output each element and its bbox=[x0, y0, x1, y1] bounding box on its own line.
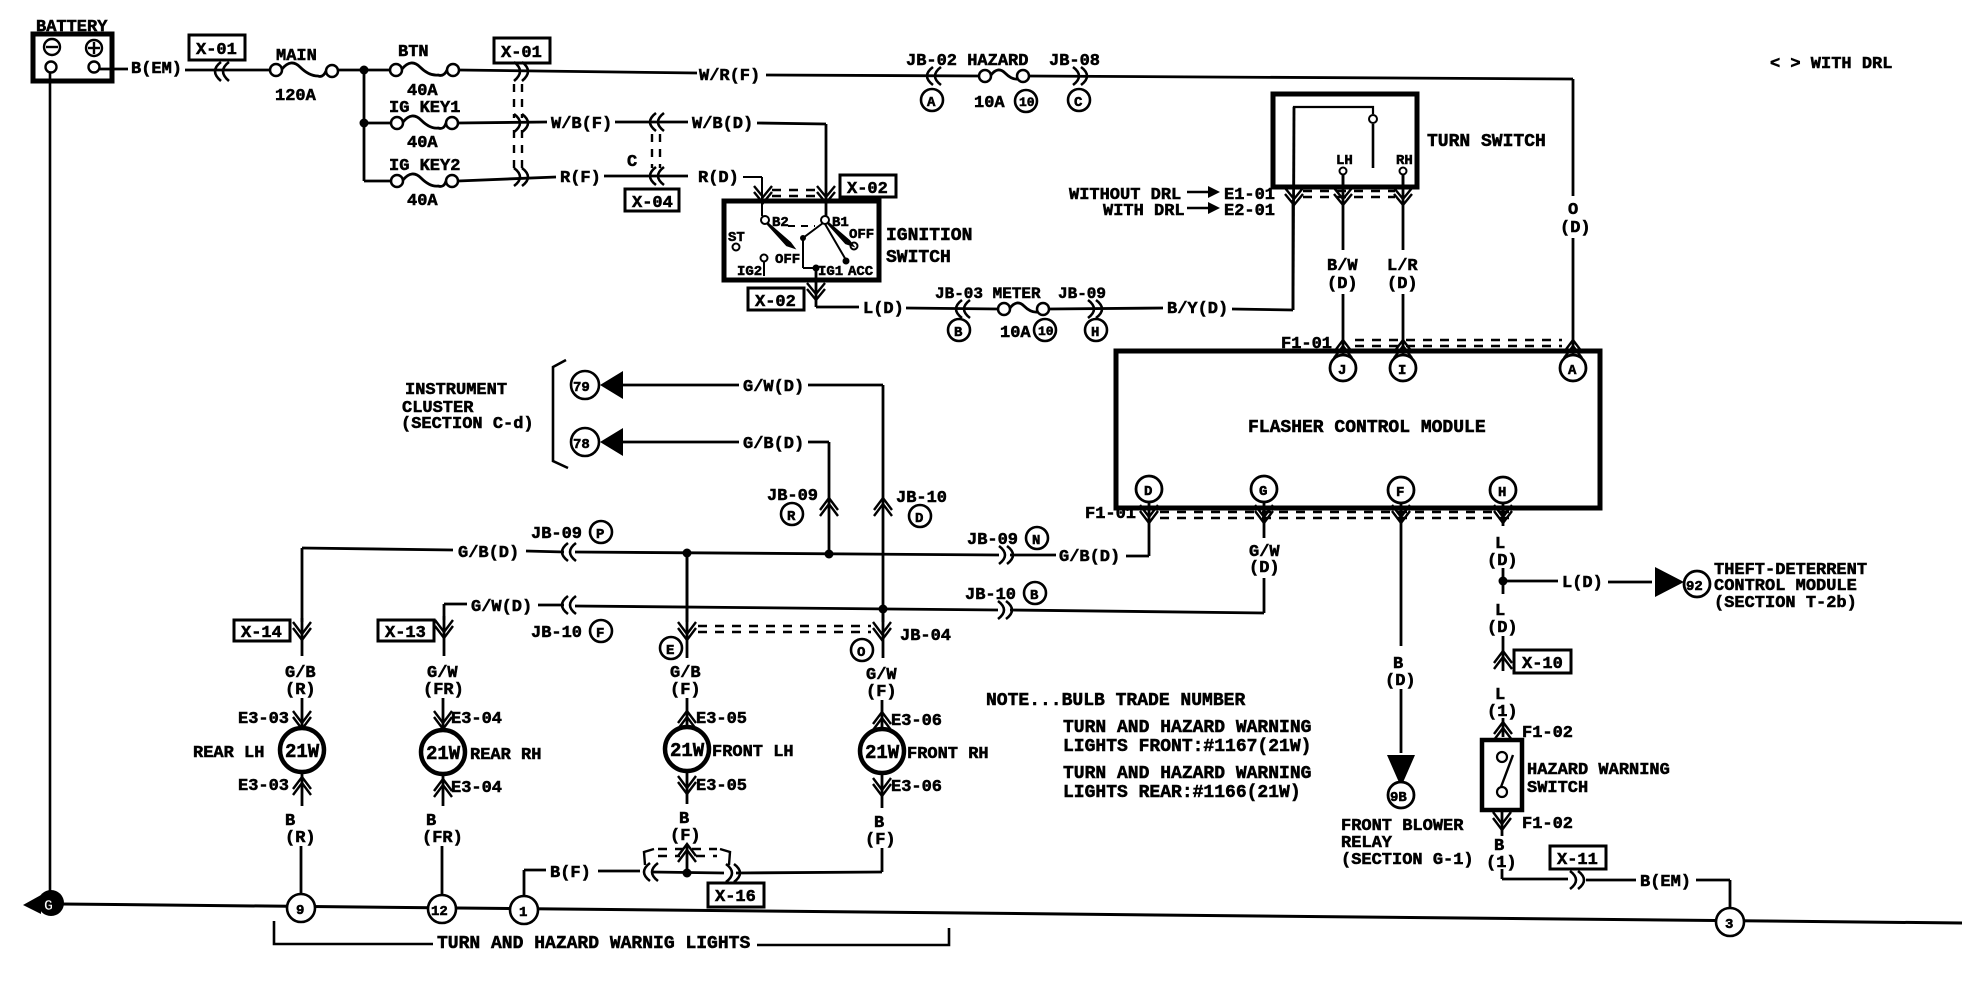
svg-text:W/B(D): W/B(D) bbox=[692, 115, 753, 134]
svg-text:R(D): R(D) bbox=[698, 169, 739, 188]
wire B/W (D) LH pin down bbox=[1327, 175, 1358, 354]
svg-text:D: D bbox=[1144, 484, 1152, 500]
connector X-14 label box bbox=[234, 620, 290, 643]
arrow to theft deterrent bbox=[1655, 567, 1684, 597]
connector E3-03 lower bbox=[238, 777, 311, 796]
connector X-11 chevron bbox=[1570, 871, 1584, 889]
svg-text:E: E bbox=[666, 643, 674, 659]
connector E3-04 upper bbox=[434, 710, 502, 729]
connector X-02 label box bottom bbox=[748, 288, 804, 312]
svg-text:L(D): L(D) bbox=[1562, 574, 1603, 593]
svg-text:IG1: IG1 bbox=[818, 264, 843, 280]
hazard warning switch box bbox=[1482, 740, 1522, 810]
wire B (1) label bbox=[1486, 808, 1517, 879]
wire BTN fuse to X-01 row1 bbox=[459, 70, 697, 73]
fuse MAIN 120A bbox=[270, 47, 338, 106]
node battery feed branch bbox=[360, 66, 369, 75]
svg-text:X-02: X-02 bbox=[847, 180, 888, 199]
connector X-04 label box bbox=[625, 189, 679, 213]
node IG KEY1 branch bbox=[360, 119, 369, 128]
svg-text:G/B(D): G/B(D) bbox=[1059, 548, 1120, 567]
svg-text:SWITCH: SWITCH bbox=[1527, 779, 1588, 798]
svg-text:E3-06: E3-06 bbox=[891, 778, 942, 797]
connector F1-01 dashed line top bbox=[1355, 340, 1562, 346]
wire B (F) front LH bbox=[670, 771, 701, 873]
svg-text:IG2: IG2 bbox=[737, 264, 762, 280]
connector X-02 dashed line bbox=[772, 190, 818, 196]
bulb REAR LH 21W bbox=[193, 728, 324, 772]
connector X-01 chevron bbox=[215, 62, 229, 81]
svg-text:10: 10 bbox=[1038, 324, 1054, 339]
svg-text:I: I bbox=[1398, 363, 1406, 379]
pin A circle flasher bbox=[1560, 355, 1586, 381]
wire B(F) horizontal bbox=[524, 864, 882, 897]
label JB-09 circled N bbox=[967, 527, 1048, 550]
label HAZARD WARNING SWITCH bbox=[1527, 761, 1670, 798]
arrow to front blower relay bbox=[1387, 755, 1415, 787]
wire B (R) to ground 9 bbox=[285, 771, 316, 895]
pin F circle bbox=[1388, 477, 1414, 503]
svg-text:E3-06: E3-06 bbox=[891, 712, 942, 731]
connector JB-09 P chevron bbox=[562, 543, 576, 561]
wire G/W (F) label front RH bbox=[866, 609, 897, 729]
svg-text:RH: RH bbox=[1396, 153, 1413, 169]
svg-text:X-14: X-14 bbox=[241, 624, 282, 643]
wire turn switch B pin down to B/Y(D) bbox=[1293, 107, 1294, 310]
connector X-01 second label box bbox=[494, 38, 550, 63]
wire L(D) from ignition to meter fuse bbox=[816, 300, 999, 319]
connector X-04 chevron row2 bbox=[650, 113, 664, 131]
svg-text:(D): (D) bbox=[1385, 672, 1416, 691]
connector JB-10 D chevron bbox=[874, 498, 892, 516]
svg-text:D: D bbox=[915, 511, 923, 527]
svg-text:E3-03: E3-03 bbox=[238, 710, 289, 729]
ignition switch box bbox=[724, 201, 879, 280]
svg-text:G: G bbox=[1259, 484, 1267, 500]
svg-text:FLASHER CONTROL MODULE: FLASHER CONTROL MODULE bbox=[1248, 418, 1486, 438]
pin 92 circle bbox=[1684, 571, 1710, 597]
svg-text:79: 79 bbox=[573, 380, 590, 396]
svg-text:JB-03 METER: JB-03 METER bbox=[935, 285, 1050, 303]
svg-text:F1-01: F1-01 bbox=[1085, 505, 1136, 524]
wire pin F drop B (D) bbox=[1385, 503, 1416, 753]
wire G/B (F) label front LH bbox=[670, 553, 701, 727]
svg-text:INSTRUMENT: INSTRUMENT bbox=[405, 381, 507, 400]
svg-text:B: B bbox=[954, 325, 963, 341]
connector E3-04 lower bbox=[434, 779, 502, 798]
connector JB-09 R chevron bbox=[820, 498, 838, 516]
svg-text:W/B(F): W/B(F) bbox=[551, 115, 612, 134]
svg-text:B(F): B(F) bbox=[550, 864, 591, 883]
svg-text:(D): (D) bbox=[1249, 559, 1280, 578]
svg-text:B(EM): B(EM) bbox=[1640, 873, 1691, 892]
node cluster G/B tap bbox=[825, 550, 834, 559]
wire rear RH drop from G/W(D) bbox=[443, 604, 446, 620]
svg-text:(D): (D) bbox=[1560, 219, 1591, 238]
svg-text:B: B bbox=[1030, 588, 1039, 604]
svg-text:N: N bbox=[1032, 533, 1040, 549]
bulb FRONT RH 21W bbox=[860, 729, 989, 773]
svg-text:R(F): R(F) bbox=[560, 169, 601, 188]
wire G/W (FR) label bbox=[423, 616, 464, 731]
connector X-13 chevron bbox=[435, 620, 453, 638]
connector X-16 left chevron bbox=[644, 863, 658, 881]
battery bbox=[33, 18, 112, 81]
svg-text:LIGHTS REAR:#1166(21W): LIGHTS REAR:#1166(21W) bbox=[1063, 783, 1301, 803]
svg-text:(D): (D) bbox=[1327, 275, 1358, 294]
svg-text:HAZARD WARNING: HAZARD WARNING bbox=[1527, 761, 1670, 780]
svg-text:L/R: L/R bbox=[1387, 257, 1418, 276]
label JB-09 circled R bbox=[767, 487, 818, 525]
connector JB-04 dashed line bbox=[698, 626, 871, 632]
label JB-10 circled B bbox=[965, 582, 1046, 605]
wire pin G to G/W(D) with label bbox=[1010, 502, 1280, 613]
connector X-01 label box bbox=[189, 35, 245, 60]
label FRONT BLOWER RELAY bbox=[1341, 817, 1474, 870]
connector X-16 chevron bbox=[678, 844, 696, 862]
svg-text:TURN AND HAZARD WARNING: TURN AND HAZARD WARNING bbox=[1063, 764, 1311, 784]
wire pin H drop with L(D) labels bbox=[1487, 503, 1518, 594]
turn switch internal rail bbox=[1294, 107, 1377, 187]
svg-text:E3-05: E3-05 bbox=[696, 710, 747, 729]
bracket turn and hazard lights bbox=[274, 921, 949, 954]
wire front LH drop bbox=[686, 553, 689, 622]
ground node 12 bbox=[428, 895, 456, 923]
svg-text:P: P bbox=[596, 527, 604, 543]
svg-text:10A: 10A bbox=[974, 94, 1005, 113]
svg-text:TURN AND HAZARD WARNING: TURN AND HAZARD WARNING bbox=[1063, 718, 1311, 738]
svg-text:X-01: X-01 bbox=[501, 44, 542, 63]
wire R(F) label segment bbox=[560, 169, 688, 188]
svg-text:H: H bbox=[1498, 485, 1506, 501]
svg-text:REAR RH: REAR RH bbox=[470, 746, 541, 765]
label JB-10 circled F bbox=[531, 620, 612, 643]
connector F1-02 lower chevron bbox=[1493, 812, 1573, 834]
svg-text:J: J bbox=[1338, 363, 1346, 379]
wire MAIN fuse to branch node bbox=[338, 69, 390, 72]
svg-text:E3-04: E3-04 bbox=[451, 779, 502, 798]
svg-text:21W: 21W bbox=[285, 741, 320, 763]
svg-text:G/B(D): G/B(D) bbox=[458, 544, 519, 563]
svg-text:(R): (R) bbox=[285, 829, 316, 848]
svg-text:O: O bbox=[857, 645, 865, 661]
svg-text:(SECTION C-d): (SECTION C-d) bbox=[401, 415, 534, 434]
svg-text:40A: 40A bbox=[407, 134, 438, 153]
connector JB-03 chevron bbox=[956, 300, 970, 318]
svg-text:78: 78 bbox=[573, 437, 590, 453]
svg-text:(F): (F) bbox=[670, 827, 701, 846]
node B(F) junction bbox=[683, 869, 692, 878]
pin A circle hazard bbox=[921, 89, 943, 111]
fuse METER 10A labels bbox=[935, 285, 1106, 303]
fuse IG KEY1 40A bbox=[364, 99, 460, 153]
wire O (D) drop to pin A bbox=[1560, 201, 1591, 354]
bulb REAR RH 21W bbox=[421, 730, 541, 774]
node front LH tap bbox=[683, 549, 692, 558]
wire B(EM) to ground 3 bbox=[1502, 873, 1730, 909]
fuse BTN 40A bbox=[390, 43, 459, 101]
connector E3-06 lower bbox=[873, 778, 942, 797]
ground symbol G bbox=[23, 890, 64, 916]
ground node 1 bbox=[510, 896, 538, 924]
connector X-02 chevrons below ignition bbox=[807, 283, 825, 300]
svg-text:O: O bbox=[1568, 201, 1578, 220]
svg-text:B/Y(D): B/Y(D) bbox=[1167, 300, 1228, 319]
ignition switch dashes between levers bbox=[788, 225, 815, 227]
connector X-11 label box bbox=[1550, 846, 1606, 870]
connector X-02 label box top bbox=[840, 175, 896, 199]
svg-text:G: G bbox=[44, 898, 53, 915]
pin B circle bbox=[948, 319, 970, 341]
svg-text:(SECTION T-2b): (SECTION T-2b) bbox=[1714, 594, 1857, 613]
instrument cluster brace bbox=[553, 360, 568, 468]
wire W/B(F) label segment bbox=[551, 115, 688, 134]
pin G circle bbox=[1251, 476, 1277, 502]
svg-text:F: F bbox=[1396, 485, 1404, 501]
fuse METER 10A bbox=[998, 303, 1049, 315]
connector X-14 chevron bbox=[293, 622, 311, 640]
svg-text:X-01: X-01 bbox=[196, 41, 237, 60]
svg-text:TURN AND HAZARD WARNIG LIGHTS: TURN AND HAZARD WARNIG LIGHTS bbox=[437, 934, 750, 954]
connector JB-09 chevron right bbox=[1088, 300, 1102, 318]
wire B (FR) to ground 12 bbox=[422, 773, 463, 896]
connector X-01 chevron row2 bbox=[514, 114, 528, 132]
svg-text:JB-02 HAZARD: JB-02 HAZARD bbox=[906, 52, 1028, 71]
wire B/Y(D) meter fuse to turn switch bbox=[1048, 200, 1293, 319]
svg-text:L(D): L(D) bbox=[863, 300, 904, 319]
svg-text:JB-09: JB-09 bbox=[967, 531, 1018, 550]
connector X-13 label box bbox=[378, 620, 434, 643]
wire L (D) below tap bbox=[1487, 602, 1518, 671]
fuse IG KEY2 40A bbox=[364, 157, 460, 211]
svg-text:120A: 120A bbox=[275, 87, 317, 106]
svg-text:F1-02: F1-02 bbox=[1522, 724, 1573, 743]
pin 9B circle bbox=[1388, 782, 1414, 808]
node theft deterrent tap bbox=[1499, 577, 1508, 586]
svg-text:10A: 10A bbox=[1000, 324, 1031, 343]
svg-text:(D): (D) bbox=[1387, 275, 1418, 294]
svg-text:H: H bbox=[1091, 325, 1099, 341]
svg-text:REAR LH: REAR LH bbox=[193, 744, 264, 763]
connector X-04 dashed line bbox=[652, 134, 660, 168]
connector JB-10 F chevron bbox=[562, 596, 576, 614]
turn switch contact LH bbox=[1336, 153, 1353, 187]
svg-text:C: C bbox=[627, 153, 637, 172]
svg-text:A: A bbox=[1568, 363, 1577, 379]
svg-text:(D): (D) bbox=[1487, 619, 1518, 638]
connector E3-06 upper bbox=[873, 712, 942, 731]
connector JB-04 E chevron bbox=[678, 622, 696, 640]
connector JB-04 O chevron bbox=[873, 622, 891, 640]
connector E3-03 upper bbox=[238, 710, 311, 729]
ignition switch lever from B2 bbox=[767, 223, 793, 247]
connector X-10 label box bbox=[1514, 650, 1571, 674]
wire G/B (R) label bbox=[285, 618, 316, 729]
turn switch contact RH bbox=[1396, 153, 1413, 187]
wire G/B(D) cluster bbox=[623, 435, 829, 554]
label THEFT-DETERRENT CONTROL MODULE bbox=[1714, 561, 1867, 613]
wire W/R(F) hazard row bbox=[699, 67, 980, 86]
flasher control module box bbox=[1116, 351, 1600, 508]
svg-text:X-04: X-04 bbox=[632, 194, 673, 213]
svg-text:E3-04: E3-04 bbox=[451, 710, 502, 729]
pin 78 circle bbox=[571, 428, 599, 456]
svg-text:21W: 21W bbox=[865, 742, 900, 764]
connector X-04 chevron row3 bbox=[650, 167, 664, 185]
note bulb trade number bbox=[986, 691, 1311, 803]
label WITH DRL E2-01 bbox=[1103, 202, 1275, 221]
connector X-16 label box bbox=[708, 883, 764, 907]
connector X-02 chevrons above ignition switch bbox=[754, 186, 835, 203]
svg-text:LIGHTS FRONT:#1167(21W): LIGHTS FRONT:#1167(21W) bbox=[1063, 737, 1311, 757]
svg-text:(FR): (FR) bbox=[423, 681, 464, 700]
ground bus wire bbox=[61, 904, 1962, 923]
wire battery negative to ground bbox=[49, 72, 52, 895]
connector F1-01 chevrons bottom bbox=[1140, 505, 1512, 523]
ignition switch lever from B1 bbox=[828, 223, 852, 245]
connector X-10 chevron bbox=[1494, 651, 1512, 669]
svg-text:OFF: OFF bbox=[775, 252, 800, 268]
connector X-16 right chevron bbox=[726, 864, 740, 882]
ignition switch label bbox=[886, 226, 972, 268]
svg-text:(F): (F) bbox=[865, 831, 896, 850]
connector E chevrons below turn switch bbox=[1285, 188, 1412, 205]
wire R(D) to ignition switch B2 bbox=[698, 169, 762, 216]
svg-text:E3-03: E3-03 bbox=[238, 777, 289, 796]
svg-text:TURN SWITCH: TURN SWITCH bbox=[1427, 132, 1546, 152]
svg-text:(SECTION G-1): (SECTION G-1) bbox=[1341, 851, 1474, 870]
svg-text:BTN: BTN bbox=[398, 43, 429, 62]
svg-text:LH: LH bbox=[1336, 153, 1353, 169]
svg-text:JB-09: JB-09 bbox=[531, 525, 582, 544]
arrow to pin 78 bbox=[600, 428, 623, 456]
connector F1-01 dashed line bottom bbox=[1160, 512, 1517, 518]
connector X-01 chevron row3 bbox=[514, 168, 528, 186]
svg-text:G/W(D): G/W(D) bbox=[743, 378, 804, 397]
svg-text:JB-04: JB-04 bbox=[900, 627, 951, 646]
svg-text:E3-05: E3-05 bbox=[696, 777, 747, 796]
wire hazard fuse to O(D) drop bbox=[1028, 76, 1573, 196]
wire rear LH drop from G/B(D) bbox=[301, 548, 304, 622]
pin 10 circle meter bbox=[1034, 319, 1056, 341]
svg-text:JB-10: JB-10 bbox=[531, 624, 582, 643]
pin H circle flasher bbox=[1490, 477, 1516, 503]
pin J circle bbox=[1330, 355, 1356, 381]
bulb FRONT LH 21W bbox=[665, 727, 794, 771]
connector X-01 second chevron row1 bbox=[514, 62, 528, 81]
svg-text:FRONT LH: FRONT LH bbox=[712, 743, 794, 762]
wire B (F) front RH bbox=[865, 773, 896, 872]
svg-text:9: 9 bbox=[296, 903, 304, 919]
wire L(D) to theft deterrent bbox=[1503, 574, 1652, 593]
pin H circle meter bbox=[1085, 319, 1107, 341]
svg-text:JB-09: JB-09 bbox=[1058, 285, 1106, 303]
label WITHOUT DRL E1-01 bbox=[1069, 186, 1275, 205]
svg-text:3: 3 bbox=[1725, 917, 1733, 933]
svg-text:21W: 21W bbox=[426, 743, 461, 765]
svg-text:(F): (F) bbox=[670, 681, 701, 700]
node front RH tap bbox=[879, 605, 888, 614]
svg-text:FRONT RH: FRONT RH bbox=[907, 745, 989, 764]
connector E3-05 lower bbox=[678, 776, 747, 796]
connector F1-02 upper chevron bbox=[1494, 722, 1573, 743]
wire ignition IG1 out bottom bbox=[815, 268, 818, 307]
svg-text:(FR): (FR) bbox=[422, 829, 463, 848]
svg-text:9B: 9B bbox=[1390, 790, 1407, 806]
svg-text:F1-02: F1-02 bbox=[1522, 815, 1573, 834]
svg-text:40A: 40A bbox=[407, 192, 438, 211]
pin I circle bbox=[1390, 355, 1416, 381]
pin 79 circle bbox=[571, 371, 599, 399]
svg-text:B/W: B/W bbox=[1327, 257, 1358, 276]
ignition switch terminal OFF right bbox=[849, 227, 874, 250]
svg-text:WITH DRL: WITH DRL bbox=[1103, 202, 1185, 221]
label circled O bbox=[851, 639, 873, 661]
ground node 9 bbox=[287, 894, 315, 922]
svg-text:B(EM): B(EM) bbox=[131, 60, 182, 79]
label JB-09 circled P bbox=[531, 521, 612, 544]
svg-text:12: 12 bbox=[431, 904, 448, 920]
wire G/W(D) horizontal run bbox=[444, 598, 998, 617]
pin C circle hazard bbox=[1068, 89, 1090, 111]
svg-text:10: 10 bbox=[1019, 95, 1035, 110]
label JB-10 circled D bbox=[896, 489, 947, 527]
ignition switch contacts IG1 ACC bbox=[800, 223, 874, 280]
wire L (1) label bbox=[1487, 686, 1518, 737]
ignition switch terminal ST bbox=[728, 230, 745, 251]
svg-text:NOTE...BULB TRADE NUMBER: NOTE...BULB TRADE NUMBER bbox=[986, 691, 1245, 711]
ignition switch terminal OFF middle and IG2 bbox=[737, 252, 800, 280]
svg-text:G/W(D): G/W(D) bbox=[471, 598, 532, 617]
svg-text:ACC: ACC bbox=[848, 264, 874, 280]
wire W/B(D) to ignition switch B1 bbox=[692, 115, 826, 216]
svg-text:X-10: X-10 bbox=[1522, 655, 1563, 674]
svg-text:X-13: X-13 bbox=[385, 624, 426, 643]
wire G/B(D) horizontal run bbox=[302, 544, 1120, 567]
wire L/R (D) RH pin down bbox=[1387, 175, 1418, 354]
ground node 3 bbox=[1716, 908, 1744, 936]
svg-text:(F): (F) bbox=[866, 683, 897, 702]
pin 10 circle hazard bbox=[1015, 90, 1037, 112]
connector X-16 dashed staple bbox=[644, 849, 730, 865]
svg-text:C: C bbox=[1074, 95, 1083, 111]
svg-text:JB-10: JB-10 bbox=[965, 586, 1016, 605]
svg-text:< > WITH DRL: < > WITH DRL bbox=[1770, 55, 1892, 74]
wire pin D to G/B(D) bbox=[1126, 502, 1149, 556]
connector E dashed line bbox=[1303, 191, 1395, 197]
svg-text:92: 92 bbox=[1686, 579, 1703, 595]
connector JB-10 B chevron bbox=[998, 601, 1012, 619]
wire front RH drop bbox=[882, 609, 885, 622]
svg-text:X-11: X-11 bbox=[1557, 851, 1598, 870]
wire branch vertical bbox=[363, 70, 366, 181]
ignition switch terminal B1 bbox=[821, 215, 849, 231]
svg-text:A: A bbox=[927, 95, 936, 111]
svg-text:(R): (R) bbox=[285, 681, 316, 700]
connector JB-02 chevron bbox=[927, 67, 941, 85]
turn switch box bbox=[1273, 94, 1417, 187]
svg-text:X-16: X-16 bbox=[715, 888, 756, 907]
arrow to pin 79 bbox=[600, 371, 623, 399]
fuse HAZARD 10A bbox=[979, 70, 1029, 82]
label circled E bbox=[660, 637, 682, 659]
svg-text:E2-01: E2-01 bbox=[1224, 202, 1275, 221]
svg-text:IGNITION: IGNITION bbox=[886, 226, 972, 246]
connector JB-09 N chevron bbox=[999, 546, 1013, 564]
wire IG KEY2 fuse to R(F) bbox=[458, 177, 556, 181]
svg-text:OFF: OFF bbox=[849, 227, 874, 243]
svg-text:1: 1 bbox=[519, 905, 527, 921]
